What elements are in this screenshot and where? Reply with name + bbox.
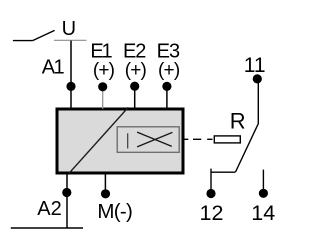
svg-text:R: R: [230, 109, 246, 134]
svg-text:(+): (+): [158, 60, 180, 81]
svg-text:14: 14: [251, 201, 275, 225]
svg-text:(+): (+): [93, 60, 115, 81]
svg-text:M(-): M(-): [97, 200, 132, 223]
svg-text:(+): (+): [125, 60, 147, 81]
svg-text:11: 11: [244, 54, 266, 77]
svg-text:A1: A1: [42, 57, 65, 79]
svg-text:12: 12: [200, 201, 224, 225]
svg-text:A2: A2: [37, 198, 61, 220]
svg-text:U: U: [62, 18, 76, 40]
